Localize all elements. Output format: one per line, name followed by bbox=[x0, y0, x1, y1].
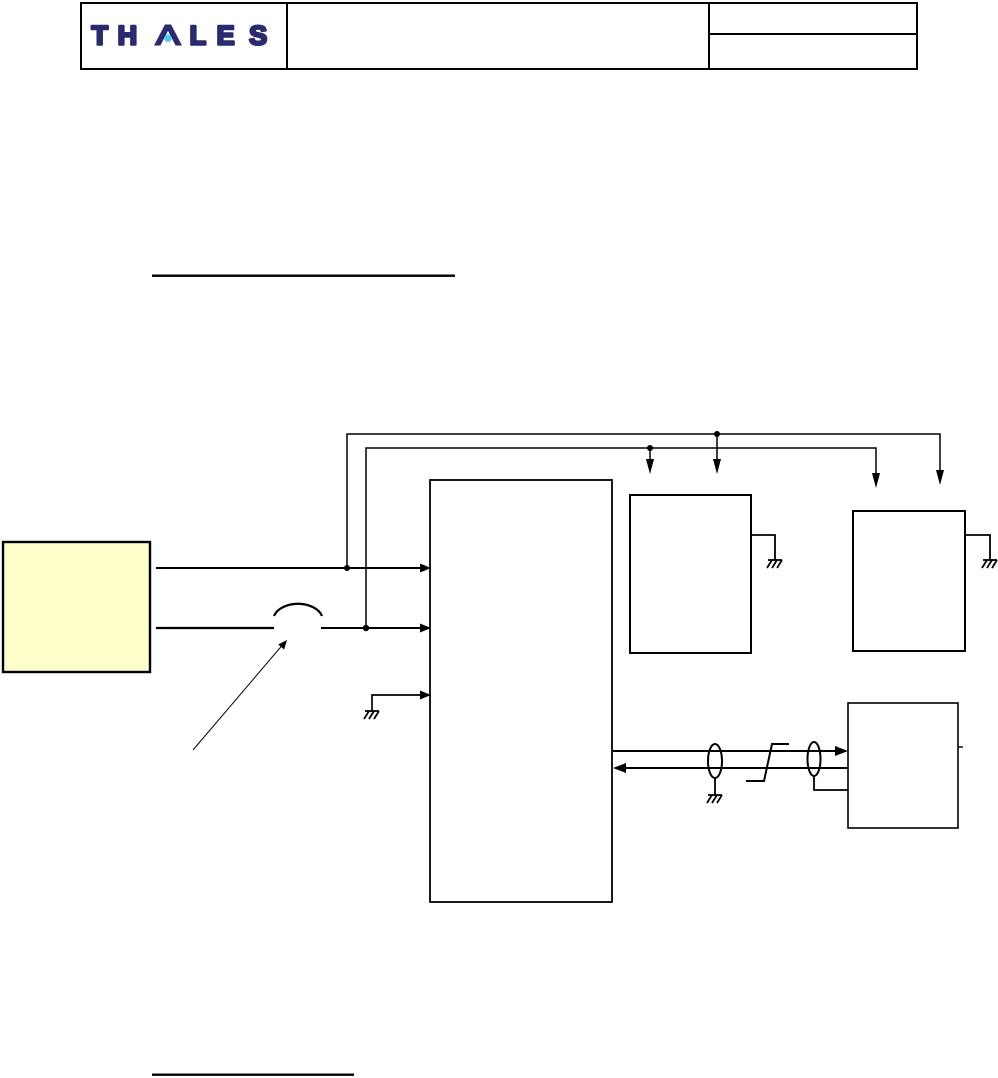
svg-text:H: H bbox=[118, 21, 138, 51]
svg-text:T: T bbox=[92, 21, 109, 51]
svg-text:S: S bbox=[249, 21, 267, 51]
svg-text:E: E bbox=[217, 21, 235, 51]
svg-text:L: L bbox=[190, 21, 207, 51]
